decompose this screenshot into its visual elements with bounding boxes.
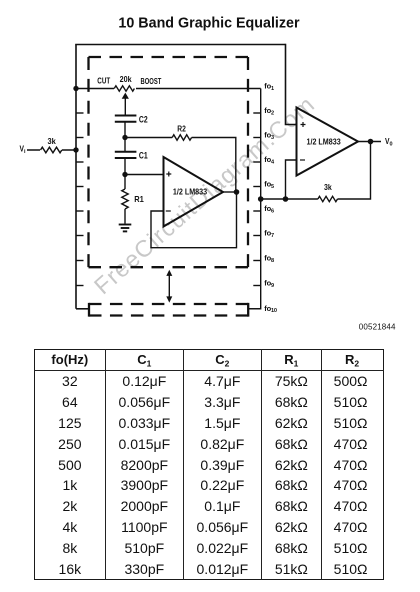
- wire C1 to node: [124, 158, 126, 175]
- label C1: [139, 150, 148, 160]
- wire C2 to node: [124, 122, 126, 152]
- node V0 output label: [385, 137, 393, 147]
- wire fo10 to last module: [248, 308, 261, 310]
- node fo8 label: [264, 254, 274, 264]
- svg-text:R2: R2: [177, 123, 186, 133]
- node fo4 label: [264, 155, 275, 165]
- svg-text:1/2 LM833: 1/2 LM833: [307, 137, 342, 146]
- junction input node: [73, 147, 78, 152]
- svg-text:Vi: Vi: [20, 144, 27, 154]
- resistor R2: [172, 123, 191, 140]
- svg-text:3k: 3k: [324, 183, 332, 192]
- repeat arrow: [166, 270, 172, 303]
- label C2: [139, 114, 148, 124]
- svg-text:fo7: fo7: [264, 229, 274, 239]
- svg-text:00521844: 00521844: [359, 323, 396, 332]
- node fo7 label: [264, 229, 274, 239]
- wire fo bus vertical: [249, 89, 261, 309]
- node fo10 label: [264, 304, 277, 314]
- resistor R1: [122, 175, 144, 224]
- svg-text:3k: 3k: [48, 137, 57, 146]
- title: [118, 16, 300, 32]
- svg-text:fo5: fo5: [264, 180, 274, 190]
- svg-text:BOOST: BOOST: [141, 77, 162, 86]
- junction C1-C2-R2 node: [122, 135, 127, 140]
- wire feedback loop op-amp1: [151, 192, 237, 248]
- junction output node: [368, 139, 374, 145]
- svg-text:fo1: fo1: [264, 82, 274, 92]
- wire 3k feedback rail: [261, 142, 371, 200]
- svg-text:fo8: fo8: [264, 254, 274, 264]
- dashed box last band module: [89, 303, 248, 317]
- wire top rail: [75, 44, 285, 46]
- wire op-amp2 output: [358, 141, 381, 143]
- ground: [119, 225, 132, 232]
- watermark FreeCircuitDiagram.Com: [89, 91, 320, 299]
- potentiometer 20k: [114, 75, 134, 116]
- wire op-amp1 output: [223, 191, 237, 193]
- fo bus stub ticks: [253, 113, 260, 286]
- node fo2 label: [264, 106, 274, 116]
- dashed box band module 1: [89, 57, 249, 267]
- wire input: [27, 149, 76, 151]
- junction bus to 3k feedback: [258, 196, 264, 202]
- junction op-amp2 inverting node: [283, 196, 289, 202]
- resistor 3k (feedback): [318, 183, 338, 202]
- wire R2 rail: [125, 138, 236, 193]
- svg-text:fo4: fo4: [264, 155, 275, 165]
- node fo1 label: [264, 82, 274, 92]
- svg-text:fo2: fo2: [264, 106, 274, 116]
- svg-text:C2: C2: [139, 114, 148, 124]
- capacitor C2: [115, 116, 137, 122]
- node fo6 label: [264, 204, 274, 214]
- wire right drop to op-amp2 + input: [286, 44, 297, 125]
- resistor 3k (input): [41, 137, 62, 153]
- wire bottom-left to last module: [76, 308, 89, 310]
- svg-text:fo6: fo6: [264, 204, 274, 214]
- wire CUT-BOOST rail: [76, 88, 261, 90]
- op-amp U2 1/2 LM833: [297, 108, 359, 176]
- wire node to op-amp1 +: [125, 174, 164, 176]
- wire op-amp2 inverting input: [286, 160, 297, 199]
- svg-text:1/2 LM833: 1/2 LM833: [173, 188, 208, 197]
- svg-text:20k: 20k: [120, 75, 132, 84]
- capacitor C1: [115, 152, 137, 158]
- svg-text:CUT: CUT: [97, 76, 110, 85]
- junction CUT rail node: [73, 86, 78, 91]
- junction op-amp1 output node: [234, 189, 240, 195]
- label CUT: [97, 76, 110, 85]
- node Vi input label: [20, 144, 27, 154]
- label BOOST: [141, 77, 162, 86]
- node fo5 label: [264, 180, 274, 190]
- node fo9 label: [264, 279, 274, 289]
- svg-text:10 Band Graphic Equalizer: 10 Band Graphic Equalizer: [118, 16, 300, 32]
- svg-text:fo10: fo10: [264, 304, 277, 314]
- op-amp U1 1/2 LM833: [164, 157, 224, 227]
- part number 00521844: [359, 323, 396, 332]
- junction C1-R1 node: [122, 172, 127, 177]
- svg-text:fo9: fo9: [264, 279, 274, 289]
- svg-text:V0: V0: [385, 137, 393, 147]
- left bus stub ticks: [76, 113, 84, 286]
- svg-text:R1: R1: [134, 195, 144, 204]
- node fo3 label: [264, 131, 274, 141]
- component value table: [34, 349, 384, 580]
- svg-text:C1: C1: [139, 150, 148, 160]
- wire left bus vertical: [75, 45, 77, 309]
